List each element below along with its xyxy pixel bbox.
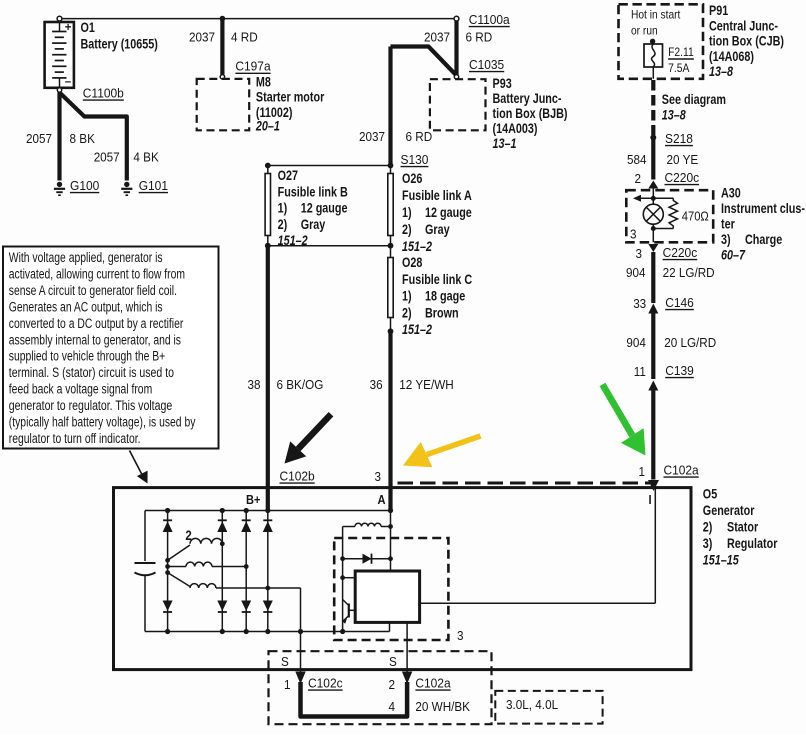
- svg-text:C139: C139: [665, 363, 694, 378]
- svg-text:151–2: 151–2: [402, 239, 432, 254]
- svg-text:2037: 2037: [189, 30, 215, 45]
- svg-text:4: 4: [389, 699, 396, 714]
- svg-text:36: 36: [370, 377, 383, 392]
- svg-text:I: I: [649, 492, 652, 507]
- svg-text:6 RD: 6 RD: [406, 129, 433, 144]
- svg-text:18 gage: 18 gage: [425, 289, 466, 304]
- svg-text:M8: M8: [256, 74, 271, 89]
- svg-text:See diagram: See diagram: [662, 92, 726, 107]
- svg-text:Fusible link B: Fusible link B: [278, 184, 348, 199]
- svg-text:Fusible link A: Fusible link A: [402, 188, 472, 203]
- svg-text:Fusible link C: Fusible link C: [402, 272, 472, 287]
- svg-text:12 YE/WH: 12 YE/WH: [399, 377, 453, 392]
- svg-text:6 RD: 6 RD: [466, 30, 493, 45]
- svg-text:4 RD: 4 RD: [231, 30, 258, 45]
- svg-text:C220c: C220c: [663, 245, 698, 260]
- svg-text:2: 2: [635, 171, 642, 186]
- svg-text:B+: B+: [246, 492, 261, 507]
- svg-text:1: 1: [639, 464, 646, 479]
- svg-text:3): 3): [703, 536, 713, 551]
- svg-text:(14A068): (14A068): [709, 49, 754, 64]
- svg-text:3: 3: [375, 469, 382, 484]
- svg-text:G101: G101: [139, 178, 168, 193]
- svg-text:With voltage applied, generato: With voltage applied, generator is: [9, 250, 163, 266]
- svg-text:904: 904: [626, 265, 646, 280]
- svg-text:1): 1): [278, 201, 288, 216]
- svg-text:151–15: 151–15: [703, 553, 739, 568]
- svg-text:feed back a voltage signal fro: feed back a voltage signal from: [9, 382, 152, 398]
- svg-text:38: 38: [248, 377, 261, 392]
- svg-text:C197a: C197a: [235, 59, 271, 74]
- svg-text:3: 3: [636, 246, 643, 261]
- svg-text:12 gauge: 12 gauge: [301, 201, 348, 216]
- svg-text:2): 2): [703, 520, 713, 535]
- svg-text:P91: P91: [709, 3, 729, 18]
- svg-text:(14A003): (14A003): [493, 121, 538, 136]
- svg-text:2): 2): [402, 305, 412, 320]
- svg-text:sense A circuit to generator f: sense A circuit to generator field coil.: [9, 283, 177, 299]
- svg-text:O1: O1: [81, 20, 96, 35]
- svg-text:(typically half battery voltag: (typically half battery voltage), is use…: [9, 415, 196, 431]
- svg-text:S: S: [389, 654, 397, 669]
- svg-text:S218: S218: [665, 131, 693, 146]
- svg-text:Instrument clus-: Instrument clus-: [721, 201, 805, 216]
- svg-text:60–7: 60–7: [721, 248, 746, 263]
- svg-text:P93: P93: [493, 76, 513, 91]
- svg-text:converted to a DC output by a: converted to a DC output by a rectifier: [9, 316, 184, 332]
- svg-text:2057: 2057: [26, 131, 52, 146]
- svg-text:13–8: 13–8: [709, 64, 733, 79]
- svg-text:33: 33: [633, 296, 646, 311]
- svg-text:20 WH/BK: 20 WH/BK: [415, 699, 470, 714]
- svg-text:8 BK: 8 BK: [70, 131, 96, 146]
- svg-text:tion Box (CJB): tion Box (CJB): [709, 34, 784, 49]
- svg-text:C102b: C102b: [280, 469, 315, 484]
- svg-text:6 BK/OG: 6 BK/OG: [277, 377, 324, 392]
- svg-text:20 LG/RD: 20 LG/RD: [664, 335, 716, 350]
- svg-text:12 gauge: 12 gauge: [425, 205, 472, 220]
- svg-text:Battery (10655): Battery (10655): [81, 37, 158, 52]
- svg-text:Stator: Stator: [727, 520, 759, 535]
- svg-text:3: 3: [630, 227, 637, 242]
- svg-text:terminal. S (stator) circuit: terminal. S (stator) circuit is used to: [9, 365, 174, 381]
- svg-text:2): 2): [278, 217, 288, 232]
- svg-text:13–8: 13–8: [662, 108, 686, 123]
- svg-text:A30: A30: [721, 186, 741, 201]
- svg-text:O27: O27: [278, 168, 298, 183]
- svg-text:Starter motor: Starter motor: [256, 90, 325, 105]
- svg-text:S130: S130: [401, 152, 429, 167]
- svg-text:C220c: C220c: [665, 170, 700, 185]
- svg-text:11: 11: [634, 364, 646, 379]
- svg-text:22 LG/RD: 22 LG/RD: [663, 265, 715, 280]
- svg-text:1): 1): [402, 205, 412, 220]
- svg-text:7.5A: 7.5A: [668, 61, 689, 75]
- svg-text:A: A: [378, 492, 386, 507]
- svg-text:Generator: Generator: [703, 503, 755, 518]
- svg-text:20 YE: 20 YE: [667, 152, 699, 167]
- svg-text:151–2: 151–2: [278, 233, 308, 248]
- svg-text:F2.11: F2.11: [668, 45, 694, 59]
- svg-text:2: 2: [389, 677, 396, 692]
- svg-text:Charge: Charge: [745, 232, 783, 247]
- svg-text:1: 1: [284, 677, 291, 692]
- svg-text:O5: O5: [703, 487, 718, 502]
- svg-text:584: 584: [627, 152, 647, 167]
- svg-text:151–2: 151–2: [402, 322, 432, 337]
- svg-text:C1035: C1035: [469, 57, 504, 72]
- svg-text:O28: O28: [402, 255, 423, 270]
- svg-text:C102a: C102a: [415, 676, 451, 691]
- svg-text:Gray: Gray: [301, 217, 326, 232]
- svg-text:3.0L, 4.0L: 3.0L, 4.0L: [506, 697, 558, 712]
- svg-text:or run: or run: [631, 24, 658, 38]
- svg-text:C102a: C102a: [664, 463, 700, 478]
- svg-text:Brown: Brown: [425, 305, 459, 320]
- svg-text:Generates an AC output, which: Generates an AC output, which is: [9, 299, 163, 315]
- svg-text:20–1: 20–1: [255, 119, 280, 134]
- svg-text:2: 2: [185, 528, 192, 543]
- svg-text:Gray: Gray: [425, 222, 450, 237]
- svg-text:Hot in start: Hot in start: [631, 8, 681, 22]
- svg-text:3): 3): [721, 232, 731, 247]
- svg-text:C146: C146: [665, 295, 694, 310]
- svg-text:–: –: [65, 76, 72, 88]
- svg-text:2037: 2037: [359, 129, 385, 144]
- svg-text:2): 2): [402, 222, 412, 237]
- svg-text:Battery Junc-: Battery Junc-: [493, 91, 562, 106]
- svg-text:3: 3: [457, 628, 464, 643]
- svg-text:470Ω: 470Ω: [682, 209, 709, 224]
- svg-text:Central Junc-: Central Junc-: [709, 18, 778, 33]
- svg-text:tion Box (BJB): tion Box (BJB): [493, 106, 568, 121]
- svg-text:G100: G100: [70, 178, 99, 193]
- svg-text:+: +: [65, 22, 72, 34]
- svg-text:13–1: 13–1: [493, 136, 517, 151]
- svg-text:1): 1): [402, 289, 412, 304]
- svg-text:904: 904: [626, 335, 646, 350]
- svg-text:C1100b: C1100b: [83, 86, 124, 101]
- svg-text:regulator to turn off indicato: regulator to turn off indicator.: [9, 431, 141, 447]
- svg-text:C1100a: C1100a: [469, 12, 511, 27]
- svg-text:ter: ter: [721, 217, 735, 232]
- svg-text:S: S: [281, 654, 289, 669]
- svg-text:2057: 2057: [94, 150, 120, 165]
- svg-text:O26: O26: [402, 171, 423, 186]
- svg-text:generator to regulator. This: generator to regulator. This voltage: [9, 398, 172, 414]
- svg-text:Regulator: Regulator: [727, 536, 778, 551]
- svg-text:activated, allowing current to: activated, allowing current to flow from: [9, 266, 185, 282]
- svg-text:2037: 2037: [424, 30, 450, 45]
- svg-text:supplied to vehicle through th: supplied to vehicle through the B+: [9, 349, 165, 365]
- svg-text:C102c: C102c: [308, 676, 343, 691]
- svg-text:4 BK: 4 BK: [133, 150, 159, 165]
- svg-text:assembly internal to generator: assembly internal to generator, and is: [9, 332, 181, 348]
